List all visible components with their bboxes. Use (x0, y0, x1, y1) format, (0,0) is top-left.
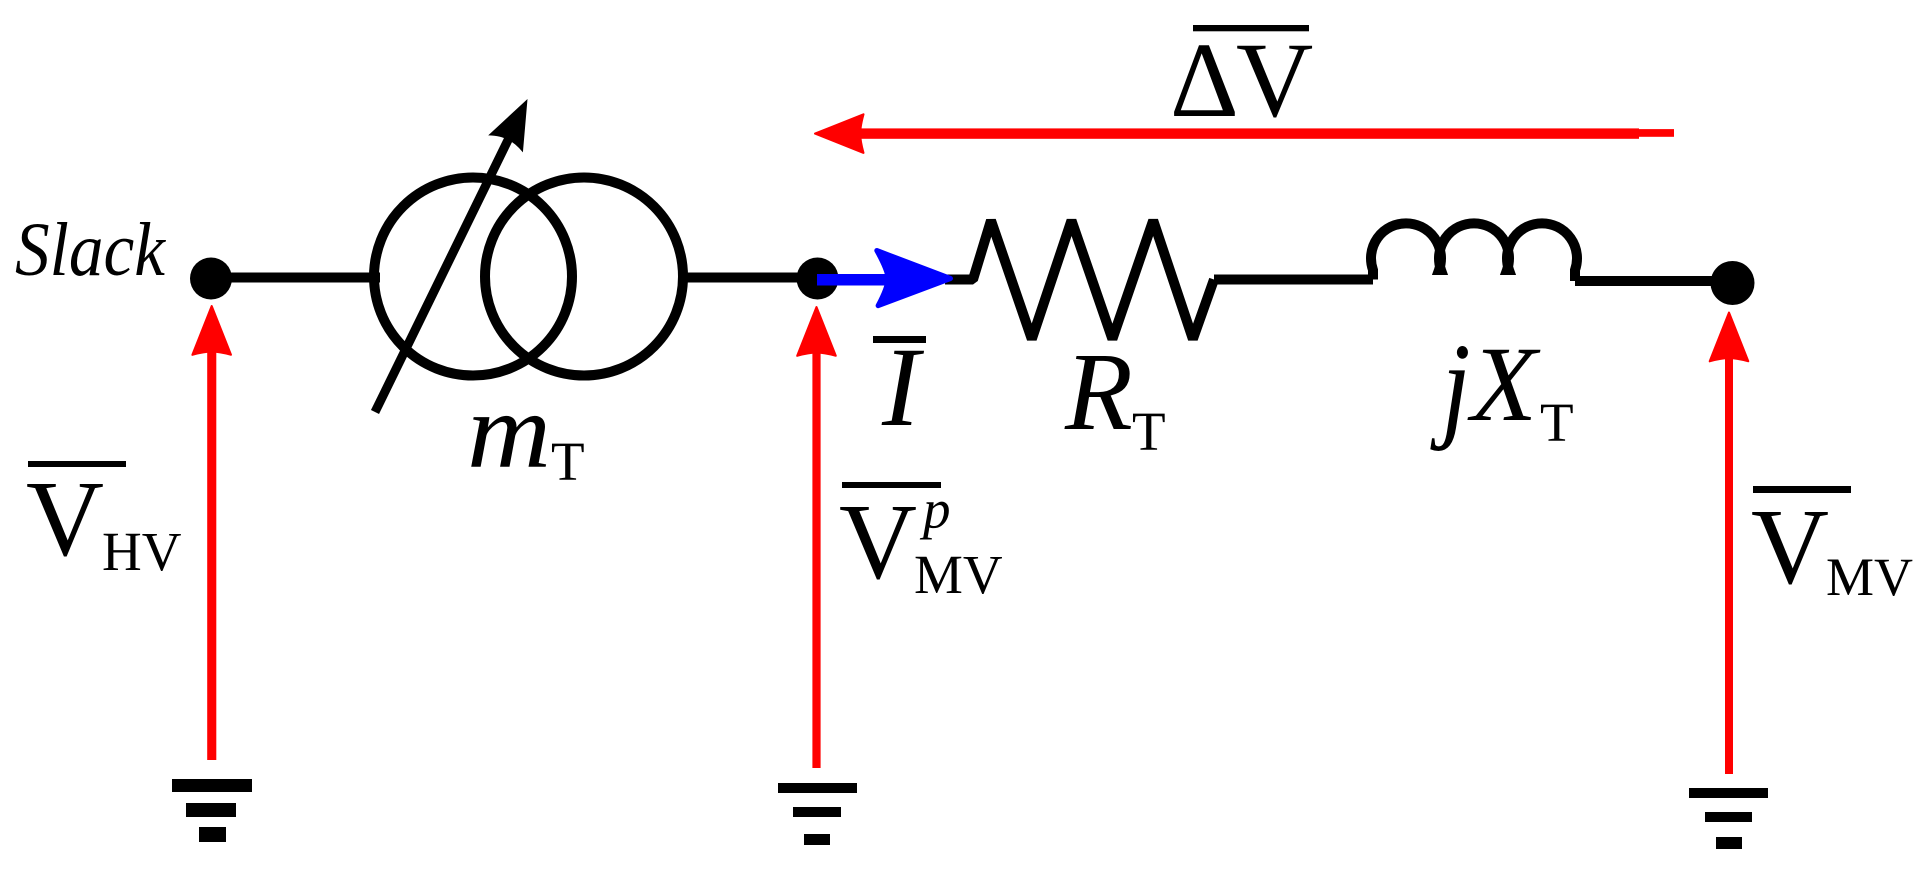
label V_HV (26, 460, 182, 582)
svg-text:I: I (881, 325, 925, 450)
svg-text:p: p (919, 479, 951, 540)
svg-text:T: T (551, 431, 585, 492)
label m_T (467, 372, 585, 492)
label V_MV (1751, 486, 1913, 607)
wire transformer to node p (678, 273, 818, 283)
label V_MV^p (839, 479, 1003, 605)
svg-text:V: V (839, 483, 917, 602)
svg-text:MV: MV (1826, 547, 1913, 607)
label jX_T (1430, 319, 1573, 454)
resistor R_T (945, 221, 1214, 340)
svg-text:HV: HV (102, 521, 182, 582)
ground V_MV (1689, 788, 1768, 849)
svg-text:j: j (1430, 319, 1470, 452)
transformer tap-changer arrow (375, 99, 528, 412)
label I (current) (873, 325, 926, 450)
wire resistor to inductor (1214, 275, 1373, 285)
ground V_HV (172, 779, 252, 842)
node V_MV (1711, 261, 1755, 305)
svg-text:T: T (1540, 392, 1574, 453)
svg-text:Slack: Slack (15, 208, 166, 292)
voltage arrow V_MV (red) (1710, 313, 1749, 775)
transformer U1 secondary circle (485, 178, 683, 376)
label R_T (1064, 331, 1166, 462)
inductor jX_T (1371, 223, 1577, 281)
label delta-V (1170, 22, 1313, 140)
transformer U1 primary circle (374, 178, 572, 376)
svg-text:V: V (1751, 488, 1829, 607)
wire slack bus to transformer (211, 273, 380, 283)
svg-text:V: V (1236, 22, 1313, 140)
wire inductor to node V_MV (1575, 276, 1733, 286)
current arrow I (blue) (817, 251, 951, 306)
svg-text:X: X (1467, 326, 1541, 444)
svg-text:V: V (26, 460, 104, 579)
svg-text:m: m (467, 372, 551, 491)
voltage arrow V_HV (red) (192, 306, 231, 760)
svg-text:MV: MV (914, 544, 1003, 605)
ground V_MV^p (778, 783, 857, 845)
node slack bus (190, 258, 232, 300)
voltage arrow V_MV^p (red) (797, 307, 836, 768)
voltage drop arrow dV (red, pointing left) (815, 114, 1674, 153)
svg-text:Δ: Δ (1170, 22, 1239, 140)
node V_MV^p (797, 258, 839, 300)
svg-text:R: R (1064, 331, 1133, 454)
svg-text:T: T (1132, 401, 1166, 462)
